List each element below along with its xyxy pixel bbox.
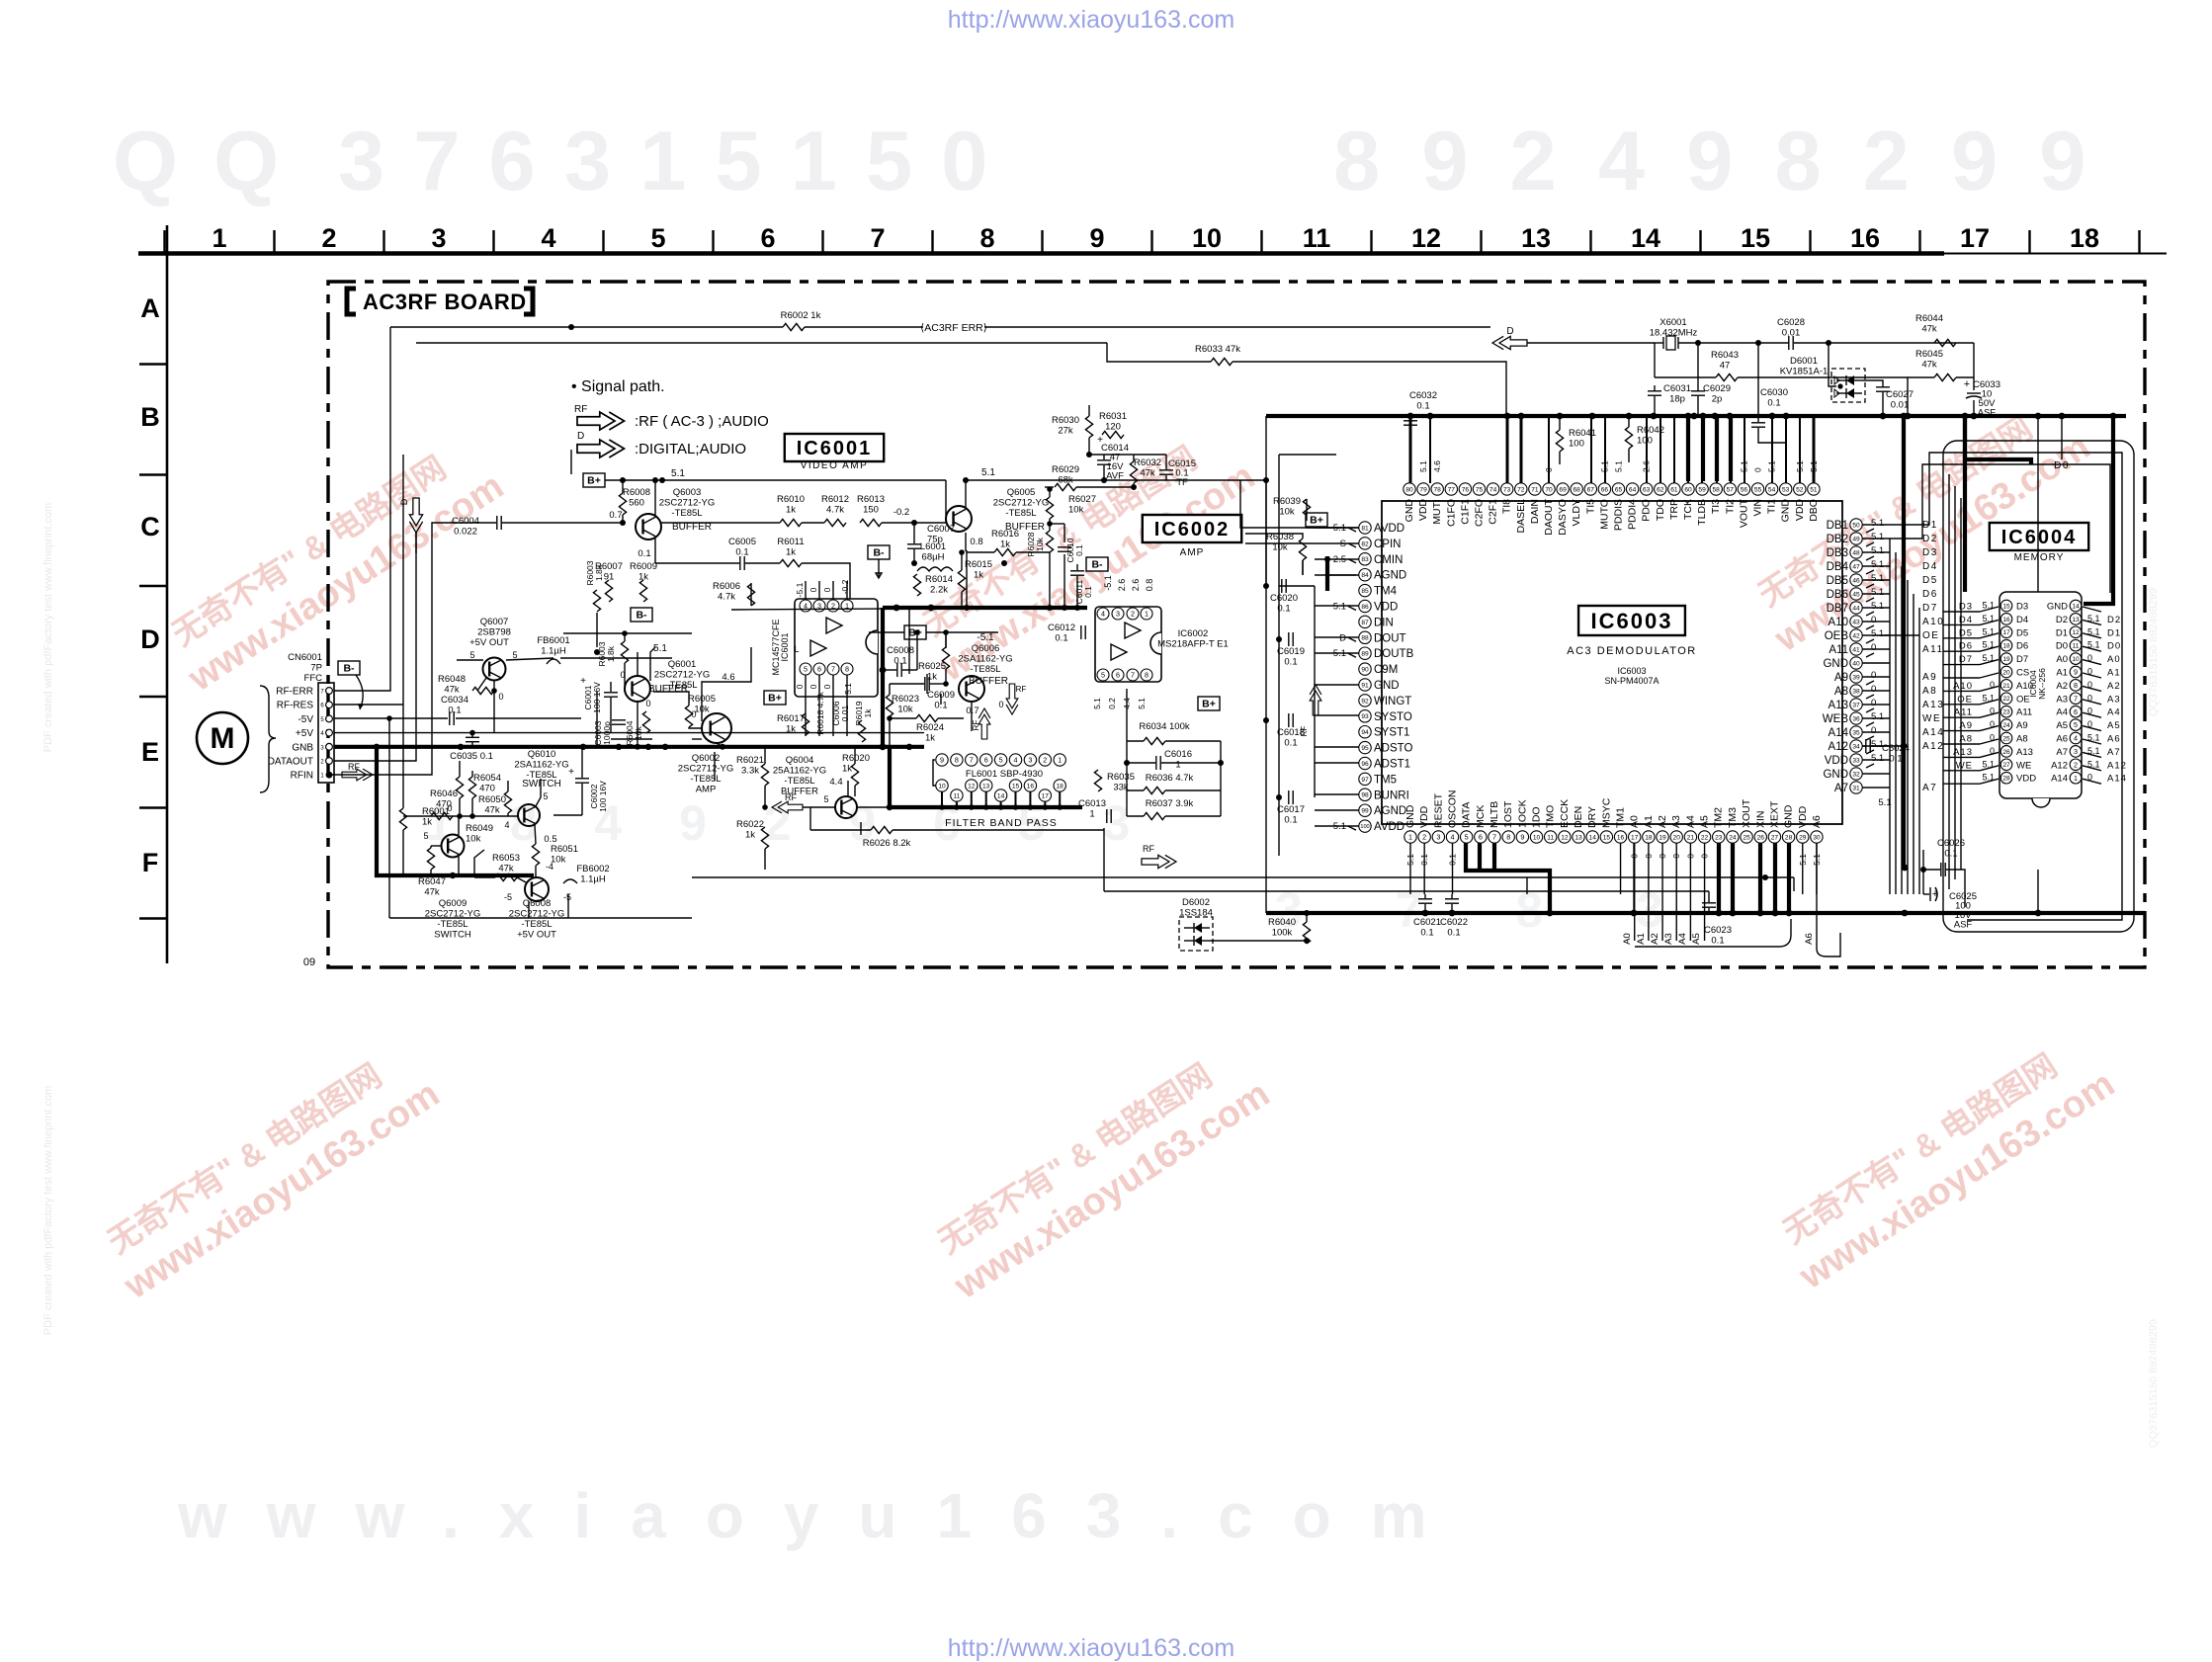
- svg-text:1: 1: [2074, 774, 2078, 783]
- svg-text:11: 11: [1303, 223, 1331, 253]
- svg-text:-5: -5: [563, 892, 571, 902]
- svg-text:47k: 47k: [1140, 468, 1155, 479]
- svg-text:52: 52: [1796, 486, 1804, 493]
- svg-text:0.01: 0.01: [1891, 400, 1910, 411]
- node B- mid: [868, 545, 890, 559]
- svg-text:0: 0: [645, 699, 650, 708]
- svg-text:A2: A2: [2056, 681, 2068, 692]
- svg-text:0: 0: [1753, 467, 1763, 472]
- svg-text:4: 4: [504, 820, 509, 830]
- svg-text:DASYO: DASYO: [1557, 499, 1569, 536]
- svg-text:1000p: 1000p: [602, 721, 612, 745]
- svg-text:R6026 8.2k: R6026 8.2k: [863, 838, 911, 849]
- svg-text:11: 11: [2073, 643, 2080, 650]
- IC6001 label box: [785, 434, 884, 461]
- ruler top tick marks: [165, 230, 2140, 253]
- svg-text:PDDI4: PDDI4: [1627, 499, 1639, 530]
- svg-text:5: 5: [469, 650, 474, 660]
- svg-text:ADST1: ADST1: [1374, 759, 1410, 771]
- wire -5V: [334, 717, 448, 719]
- svg-text:R6023: R6023: [892, 694, 919, 705]
- arrow RF down1: [1006, 684, 1018, 714]
- svg-text:1: 1: [1058, 756, 1062, 765]
- svg-text:0.7: 0.7: [609, 510, 622, 521]
- svg-text:TI8: TI8: [1501, 499, 1513, 514]
- svg-text:14: 14: [1631, 223, 1660, 253]
- svg-text:50: 50: [1852, 522, 1860, 529]
- svg-text:150: 150: [863, 505, 879, 516]
- svg-text:10: 10: [2072, 656, 2080, 663]
- svg-text:A0: A0: [2107, 654, 2121, 665]
- svg-text:32: 32: [1852, 771, 1860, 778]
- node B+ IC6002 below: [1198, 697, 1220, 710]
- svg-text:4: 4: [1101, 610, 1105, 619]
- svg-text:7P: 7P: [310, 663, 322, 674]
- svg-text:A3: A3: [1663, 933, 1674, 945]
- ruler top horizontal line: [138, 251, 1944, 256]
- svg-text:1k: 1k: [786, 505, 796, 516]
- IC6004 chip body: [1999, 592, 2082, 798]
- svg-text:GND: GND: [1404, 804, 1416, 828]
- svg-text:15: 15: [1741, 223, 1770, 253]
- svg-text:OE: OE: [2016, 694, 2030, 705]
- svg-text:-5: -5: [504, 892, 512, 902]
- wire network misc: [570, 450, 572, 474]
- svg-text:IC6002: IC6002: [1154, 519, 1231, 540]
- svg-text:11: 11: [1547, 834, 1554, 841]
- svg-text:IC6003: IC6003: [1591, 609, 1673, 633]
- svg-text:AC3 DEMODULATOR: AC3 DEMODULATOR: [1567, 645, 1697, 657]
- capacitor C6021: [1418, 898, 1432, 900]
- svg-text:0.1: 0.1: [1083, 586, 1093, 598]
- svg-text:RF-RES: RF-RES: [277, 701, 314, 711]
- svg-text:A5: A5: [1691, 933, 1702, 945]
- svg-text:10: 10: [938, 783, 946, 789]
- svg-text:+5V: +5V: [296, 728, 313, 739]
- svg-text:5: 5: [423, 831, 428, 841]
- svg-text:A7: A7: [1922, 783, 1937, 793]
- svg-text:A: A: [140, 293, 160, 323]
- svg-text:PDDIS: PDDIS: [1613, 499, 1625, 531]
- svg-text:0.7: 0.7: [966, 706, 978, 716]
- svg-text:A13: A13: [1953, 747, 1973, 758]
- svg-text:-5V: -5V: [298, 714, 313, 725]
- svg-text:D3: D3: [2016, 602, 2028, 613]
- svg-text:8: 8: [845, 665, 849, 674]
- svg-text:VDD: VDD: [1825, 755, 1848, 767]
- svg-text:C6028: C6028: [1777, 317, 1805, 328]
- svg-text:7: 7: [2074, 694, 2078, 703]
- svg-text:1: 1: [1408, 833, 1412, 842]
- wire DATAOUT: [334, 532, 416, 761]
- svg-text:95: 95: [1361, 745, 1369, 752]
- svg-text:6: 6: [1116, 671, 1120, 680]
- watermark pink diagonal bottom-middle: [922, 1036, 1277, 1307]
- svg-text:E: E: [141, 737, 159, 767]
- svg-text:100: 100: [1360, 824, 1369, 830]
- svg-text:WE: WE: [1922, 713, 1941, 724]
- svg-text:0: 0: [822, 587, 832, 592]
- svg-text:VDD: VDD: [2016, 774, 2036, 785]
- svg-text:2.6: 2.6: [1642, 460, 1652, 472]
- svg-text:5.1: 5.1: [1871, 628, 1884, 639]
- svg-text:29: 29: [1799, 834, 1807, 841]
- svg-text:-5.1: -5.1: [977, 632, 994, 643]
- svg-text:MUTI: MUTI: [1431, 499, 1443, 525]
- IC6003 right pin values and nets: [1862, 518, 1944, 793]
- svg-text:R6044: R6044: [1915, 313, 1943, 324]
- svg-text:VDD: VDD: [1794, 499, 1806, 522]
- svg-text:A11: A11: [1954, 707, 1973, 718]
- wire right nest verticals: [1948, 474, 1950, 889]
- svg-text:WE: WE: [2016, 760, 2031, 771]
- wire top second: [416, 342, 1107, 344]
- svg-text:0.01: 0.01: [1782, 328, 1801, 339]
- svg-text:DB7: DB7: [1827, 603, 1848, 615]
- svg-text:C6017: C6017: [1277, 804, 1305, 815]
- svg-text:97: 97: [1361, 777, 1369, 784]
- svg-text:71: 71: [1531, 486, 1539, 493]
- wires left cluster misc: [458, 816, 460, 835]
- svg-text:87: 87: [1361, 620, 1369, 626]
- svg-text:WEB: WEB: [1823, 713, 1849, 725]
- svg-text:1k: 1k: [786, 547, 796, 558]
- arrow RF up1: [978, 708, 990, 739]
- svg-text:C6020: C6020: [1270, 593, 1298, 604]
- svg-text:-5.1: -5.1: [1103, 575, 1113, 591]
- svg-text:SWITCH: SWITCH: [522, 779, 560, 789]
- svg-text:TM1: TM1: [1615, 807, 1627, 828]
- svg-text:13: 13: [982, 783, 990, 789]
- svg-text:A8: A8: [1834, 686, 1848, 698]
- svg-text:20: 20: [2002, 669, 2010, 676]
- svg-text:21: 21: [1687, 834, 1695, 841]
- svg-text:A5: A5: [2056, 720, 2068, 731]
- svg-text:1.1µH: 1.1µH: [541, 646, 566, 657]
- svg-text:17: 17: [1960, 223, 1990, 253]
- svg-text:2SA1162-YG: 2SA1162-YG: [958, 654, 1012, 665]
- svg-text:A1: A1: [1636, 933, 1647, 945]
- watermark pink diagonal top-left: [156, 428, 511, 700]
- svg-text:37: 37: [1852, 702, 1860, 708]
- svg-text:-0.2: -0.2: [893, 507, 909, 518]
- svg-text:D6001: D6001: [1790, 356, 1818, 367]
- svg-text:22: 22: [2002, 696, 2010, 703]
- svg-text:CPIN: CPIN: [1374, 539, 1401, 550]
- svg-text:5.1: 5.1: [1092, 698, 1102, 709]
- svg-text:SYSTO: SYSTO: [1374, 711, 1412, 723]
- svg-text:5.1: 5.1: [1809, 460, 1819, 472]
- svg-text:5.1: 5.1: [1137, 698, 1147, 709]
- svg-text:DAOUT: DAOUT: [1543, 498, 1555, 535]
- svg-text:IC6004: IC6004: [2001, 527, 2078, 548]
- svg-text:49: 49: [1852, 536, 1860, 542]
- wire thick feed to IC6004 pin14: [2084, 416, 2113, 604]
- svg-text:64: 64: [1629, 486, 1637, 493]
- svg-text:R6034 100k: R6034 100k: [1139, 721, 1189, 732]
- svg-text:http://www.xiaoyu163.com: http://www.xiaoyu163.com: [948, 6, 1234, 34]
- svg-text:A10: A10: [2016, 681, 2033, 692]
- svg-text:TRP: TRP: [1668, 499, 1680, 520]
- svg-text:PDF created with pdfFactory te: PDF created with pdfFactory test www.fin…: [43, 1086, 54, 1335]
- svg-text:47k: 47k: [424, 887, 440, 898]
- svg-text:D7: D7: [1922, 603, 1938, 614]
- svg-text:4: 4: [2074, 734, 2078, 743]
- svg-text:Q6004: Q6004: [786, 755, 814, 766]
- svg-text:MC14577CFE: MC14577CFE: [771, 619, 781, 675]
- svg-text:OEB: OEB: [1825, 630, 1849, 642]
- svg-text:VDD: VDD: [1418, 805, 1430, 828]
- svg-text:0: 0: [1871, 684, 1876, 695]
- svg-text:MEMORY: MEMORY: [2014, 552, 2065, 563]
- wire B+ rail: [605, 479, 946, 481]
- svg-text:18p: 18p: [1669, 394, 1685, 405]
- svg-text:42: 42: [1852, 632, 1860, 639]
- svg-text:1OCK: 1OCK: [1516, 799, 1528, 828]
- IC6004 left pin leads: [1943, 612, 1980, 784]
- svg-text:10: 10: [1533, 834, 1541, 841]
- svg-text:0.1: 0.1: [1447, 928, 1460, 939]
- svg-text:RF: RF: [1016, 685, 1027, 694]
- svg-text:D7: D7: [1959, 654, 1973, 665]
- svg-text:47k: 47k: [1921, 324, 1937, 335]
- svg-text:C: C: [140, 512, 160, 541]
- IC6003 bottom drops: [1409, 843, 1411, 894]
- svg-text:A12: A12: [1922, 741, 1944, 752]
- svg-text:MCK: MCK: [1475, 805, 1487, 828]
- svg-text:F: F: [142, 848, 159, 877]
- svg-text:SWITCH: SWITCH: [434, 930, 471, 941]
- svg-text:+: +: [1964, 378, 1970, 390]
- wire A-bus collector: [1635, 919, 1791, 947]
- svg-text:376315150: 376315150: [338, 115, 1016, 208]
- svg-text:20: 20: [1673, 834, 1681, 841]
- svg-text:6: 6: [817, 665, 821, 674]
- svg-text:FL6001 SBP-4930: FL6001 SBP-4930: [966, 769, 1043, 780]
- bottom bus thick: [1266, 911, 2145, 915]
- svg-text:TM5: TM5: [1374, 774, 1397, 786]
- watermark pink diagonal bottom-right: [1767, 1026, 2122, 1297]
- svg-text:C6030: C6030: [1760, 387, 1788, 398]
- svg-text:D6: D6: [1922, 589, 1938, 600]
- svg-text:A12: A12: [2107, 760, 2127, 771]
- svg-text:DEN: DEN: [1573, 806, 1584, 828]
- svg-text:VLDY: VLDY: [1571, 499, 1582, 526]
- svg-text:B+: B+: [768, 693, 782, 705]
- svg-text:ASF: ASF: [1954, 920, 1973, 931]
- svg-text:74: 74: [1489, 486, 1497, 493]
- svg-text:0.1: 0.1: [638, 548, 650, 559]
- svg-text:A9: A9: [1959, 720, 1973, 731]
- IC6003 top pin row 80-51: [1404, 483, 1820, 536]
- svg-text:B: B: [140, 402, 160, 432]
- svg-text:R6047: R6047: [418, 876, 446, 887]
- transistor Q6008: [525, 877, 549, 901]
- svg-text:R6053: R6053: [492, 853, 520, 864]
- IC6001 pins top: [800, 600, 811, 612]
- svg-text:5.1: 5.1: [653, 643, 667, 654]
- svg-text:92: 92: [1361, 698, 1369, 705]
- svg-text:AC3RF BOARD: AC3RF BOARD: [363, 290, 527, 314]
- svg-text:5: 5: [823, 794, 828, 804]
- svg-text:R6015: R6015: [965, 559, 992, 570]
- svg-text:5: 5: [650, 223, 665, 253]
- svg-text:A3: A3: [1670, 815, 1682, 828]
- svg-text:4.4: 4.4: [829, 777, 842, 788]
- svg-text:4: 4: [541, 223, 555, 253]
- svg-text:0: 0: [795, 684, 805, 689]
- wire right loop 3: [1890, 464, 2110, 593]
- svg-text:Q6001: Q6001: [668, 659, 697, 670]
- wire RFIN: [329, 523, 443, 775]
- svg-text:R6020: R6020: [842, 753, 870, 764]
- svg-text:R6039: R6039: [1273, 496, 1301, 507]
- svg-text:www.xiaoyu163.com: www.xiaoyu163.com: [177, 1480, 1467, 1551]
- svg-text:R6024: R6024: [916, 722, 944, 733]
- svg-text:0: 0: [808, 684, 818, 689]
- svg-text:IC6001: IC6001: [780, 632, 790, 661]
- svg-text:93: 93: [1361, 713, 1369, 720]
- svg-text:25: 25: [2002, 735, 2010, 742]
- svg-text:18: 18: [1057, 783, 1064, 789]
- svg-text:13: 13: [1574, 834, 1582, 841]
- svg-text:8: 8: [1145, 671, 1149, 680]
- svg-text:B-: B-: [873, 547, 885, 559]
- svg-text:C6026: C6026: [1937, 838, 1965, 849]
- svg-text:41: 41: [1852, 646, 1860, 653]
- svg-text:31: 31: [1852, 785, 1860, 791]
- svg-text:25: 25: [1743, 834, 1750, 841]
- svg-text:TM3: TM3: [1727, 807, 1739, 828]
- svg-text::DIGITAL;AUDIO: :DIGITAL;AUDIO: [635, 441, 746, 457]
- svg-text:-TE85L: -TE85L: [970, 664, 1000, 675]
- svg-text:36: 36: [1852, 715, 1860, 722]
- svg-text:TDO: TDO: [1655, 499, 1666, 521]
- svg-text:2SC2712-YG: 2SC2712-YG: [993, 498, 1050, 509]
- svg-text:C6021: C6021: [1413, 917, 1441, 928]
- svg-text:Q6005: Q6005: [1007, 487, 1036, 498]
- svg-text:A13: A13: [1829, 700, 1848, 711]
- svg-text:TMO: TMO: [1545, 805, 1557, 828]
- svg-text:4.7k: 4.7k: [718, 592, 735, 603]
- svg-text:D6: D6: [2016, 641, 2028, 652]
- svg-text:28: 28: [1785, 834, 1793, 841]
- svg-text:0: 0: [822, 684, 832, 689]
- svg-text:5: 5: [543, 791, 548, 801]
- svg-text:33: 33: [1852, 757, 1860, 764]
- IC6004 right pins 14-1: [2047, 600, 2127, 785]
- svg-text:0: 0: [691, 709, 696, 719]
- svg-text:-TE85L: -TE85L: [671, 508, 702, 519]
- svg-text:5.1: 5.1: [1871, 545, 1884, 556]
- svg-text:5.1: 5.1: [1871, 711, 1884, 722]
- svg-text:18: 18: [2070, 223, 2099, 253]
- svg-text:24: 24: [2002, 722, 2010, 729]
- svg-text:2SC2712-YG: 2SC2712-YG: [659, 498, 716, 509]
- wire bottom thin2: [1104, 890, 1709, 892]
- wire GNB down thick: [377, 747, 534, 875]
- svg-text:DRY: DRY: [1586, 806, 1598, 828]
- svg-text:R6045: R6045: [1915, 349, 1943, 360]
- svg-text:0: 0: [1871, 670, 1876, 681]
- svg-text:A14: A14: [2051, 774, 2068, 785]
- svg-text:-TE85L: -TE85L: [784, 776, 814, 787]
- svg-text:1k: 1k: [925, 733, 935, 744]
- svg-text:DOUTB: DOUTB: [1374, 648, 1414, 660]
- svg-text:40: 40: [1852, 660, 1860, 667]
- svg-text:16: 16: [2002, 617, 2010, 623]
- svg-text:A6: A6: [2107, 734, 2121, 745]
- svg-text:A14: A14: [2107, 774, 2127, 785]
- node B+ under IC6001: [764, 691, 786, 705]
- svg-text:79: 79: [1419, 486, 1427, 493]
- svg-text:1DO: 1DO: [1531, 806, 1543, 828]
- svg-text:21: 21: [2002, 683, 2010, 690]
- svg-text:D: D: [399, 498, 409, 505]
- svg-text:A4: A4: [1684, 815, 1696, 828]
- svg-text:2: 2: [321, 223, 336, 253]
- capacitor C6022: [1445, 898, 1459, 900]
- svg-text:OE: OE: [1922, 630, 1939, 641]
- svg-text:90: 90: [1361, 666, 1369, 673]
- svg-text:DASEL: DASEL: [1515, 499, 1527, 534]
- svg-text:TLDB: TLDB: [1696, 499, 1708, 526]
- svg-text:0.1: 0.1: [1284, 738, 1297, 749]
- svg-text:A10: A10: [1953, 681, 1973, 692]
- AC3RF board dashed outline: [328, 282, 2145, 967]
- svg-text:38: 38: [1852, 688, 1860, 695]
- svg-text:R6035: R6035: [1107, 772, 1135, 783]
- svg-text:R6022: R6022: [736, 819, 764, 830]
- svg-text:R6048: R6048: [438, 674, 466, 685]
- svg-text:A13: A13: [1922, 700, 1944, 710]
- svg-text:D7: D7: [2016, 654, 2028, 665]
- svg-text:C6019: C6019: [1277, 646, 1305, 657]
- svg-text:R6032: R6032: [1134, 457, 1161, 468]
- svg-text:80: 80: [1405, 486, 1413, 493]
- svg-text:18: 18: [2002, 643, 2010, 650]
- svg-text:TI1: TI1: [1766, 499, 1778, 514]
- svg-text:10k: 10k: [466, 834, 481, 845]
- svg-text:XIN: XIN: [1754, 810, 1766, 828]
- svg-text:C1F1: C1F1: [1459, 499, 1471, 525]
- wire Q6003 emitter rail: [661, 522, 780, 524]
- svg-text:47k: 47k: [1921, 360, 1937, 371]
- svg-text:R6033 47k: R6033 47k: [1195, 344, 1240, 355]
- svg-text:FB6002: FB6002: [576, 864, 609, 874]
- IC6003 chip body: [1382, 501, 1842, 824]
- main top bus thick: [1266, 414, 2126, 418]
- svg-text:5.1: 5.1: [1614, 460, 1624, 472]
- svg-text:16: 16: [1027, 783, 1035, 789]
- svg-text:1.1µH: 1.1µH: [580, 874, 606, 885]
- svg-text:A0: A0: [2056, 654, 2068, 665]
- svg-text:KV1851A-1: KV1851A-1: [1780, 367, 1829, 377]
- svg-text:RF-ERR: RF-ERR: [276, 687, 313, 698]
- svg-text:B+: B+: [587, 475, 601, 487]
- wire right loop 2: [1890, 453, 2122, 920]
- svg-text:54: 54: [1768, 486, 1776, 493]
- IC6002 pins bottom: [1097, 669, 1109, 681]
- svg-text:R6025: R6025: [918, 661, 946, 672]
- svg-text:GND: GND: [1783, 804, 1795, 828]
- svg-text:0.1: 0.1: [893, 656, 906, 667]
- wire base line Q6010: [403, 815, 518, 817]
- svg-text:DIN: DIN: [1374, 617, 1394, 628]
- svg-text:BUNRI: BUNRI: [1374, 789, 1409, 801]
- svg-text:30: 30: [1813, 834, 1821, 841]
- svg-text:7: 7: [970, 756, 974, 765]
